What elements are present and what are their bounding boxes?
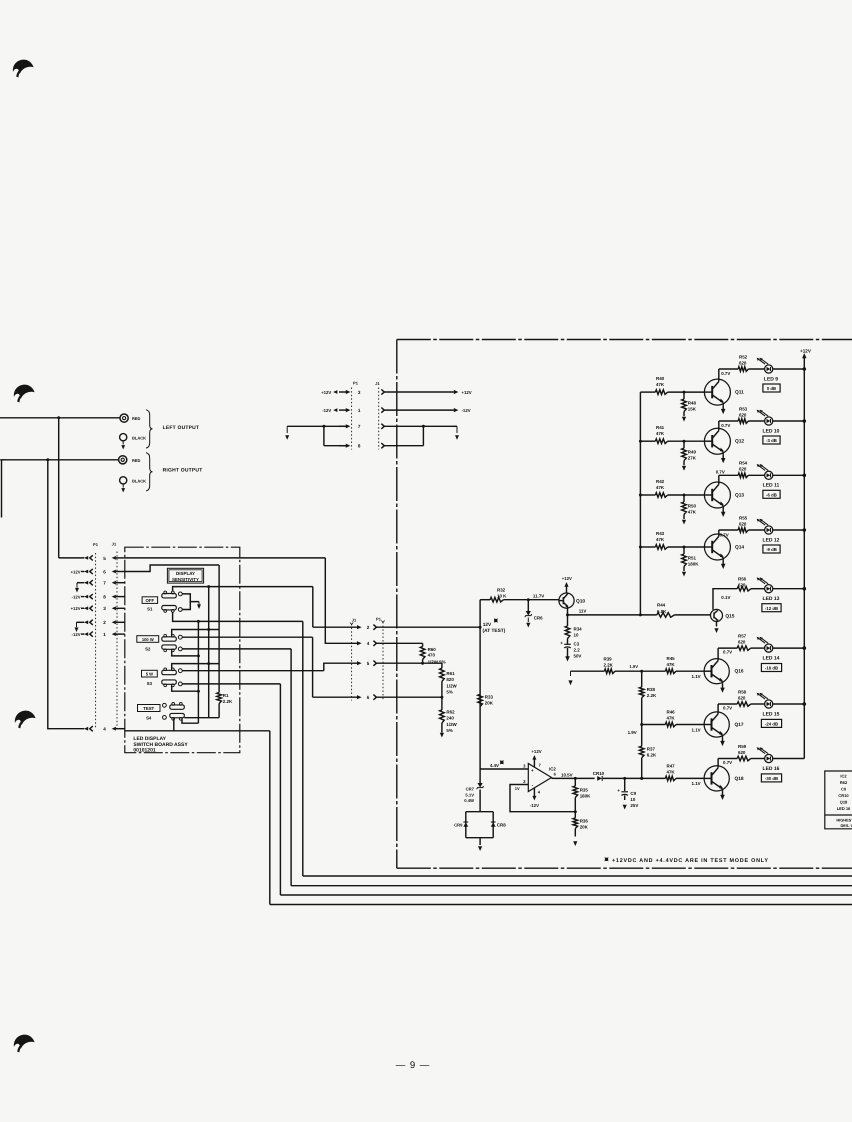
svg-text:470: 470 <box>428 653 436 658</box>
svg-text:620: 620 <box>739 521 747 526</box>
wire row5 from V1 <box>59 557 84 559</box>
resistor R53 <box>719 420 738 422</box>
highest ref designator table <box>825 771 852 829</box>
node A junction <box>57 416 60 419</box>
transistor Q13 <box>704 482 730 508</box>
svg-text:5.1V: 5.1V <box>465 792 474 797</box>
svg-text:CR6: CR6 <box>534 616 543 621</box>
svg-text:R36: R36 <box>580 819 589 824</box>
transistor Q11 <box>704 379 730 405</box>
top connector pin 3 <box>339 391 346 393</box>
svg-text:47K: 47K <box>667 716 676 721</box>
capacitor C3 <box>567 639 569 645</box>
node base Q12 <box>683 440 686 443</box>
bridge CR9 CR8 <box>466 811 493 813</box>
svg-text:620: 620 <box>738 750 746 755</box>
wire Q12 emitter ground <box>722 454 724 458</box>
svg-text:P1: P1 <box>93 542 99 547</box>
svg-text:(AT TEST): (AT TEST) <box>483 628 506 634</box>
resistor R56 <box>737 586 751 591</box>
wire Q10 emitter <box>567 606 569 615</box>
brace right output <box>146 453 153 491</box>
svg-text:4.4V: 4.4V <box>490 763 499 768</box>
svg-text:CR9: CR9 <box>454 823 463 828</box>
transistor Q15 <box>711 609 723 621</box>
svg-text:-12V: -12V <box>322 408 331 413</box>
svg-text:-: - <box>532 783 534 789</box>
svg-text:Q13: Q13 <box>735 493 744 499</box>
svg-text:-12V: -12V <box>462 408 471 413</box>
svg-text:1: 1 <box>358 408 361 413</box>
wire Q14 collector riser <box>718 530 720 534</box>
svg-text:R48: R48 <box>688 401 697 406</box>
resistor R57 <box>718 647 737 649</box>
svg-text:Q18: Q18 <box>735 776 744 782</box>
terminal BLACK right <box>120 477 127 484</box>
svg-text:J1: J1 <box>112 542 117 547</box>
svg-text:R43: R43 <box>656 531 665 536</box>
left connector pin 1 <box>90 632 93 637</box>
mid connector pin 6 <box>357 695 362 699</box>
svg-text:SENSITIVITY: SENSITIVITY <box>172 577 199 582</box>
transistor Q18 <box>704 766 729 791</box>
connector P1 left dashed line <box>95 553 97 729</box>
svg-text:LED 12: LED 12 <box>763 537 780 543</box>
svg-text:6.8K: 6.8K <box>657 609 667 614</box>
svg-text:15K: 15K <box>688 407 697 412</box>
svg-text:1V: 1V <box>515 786 520 791</box>
resistor R43 <box>640 546 655 548</box>
wire Q12 collector riser <box>718 421 720 428</box>
svg-text:5%: 5% <box>446 728 452 733</box>
svg-text:-24 dB: -24 dB <box>765 722 778 727</box>
svg-text:47K: 47K <box>667 662 676 667</box>
svg-text:R42: R42 <box>656 479 665 484</box>
ground pin7 <box>77 582 84 584</box>
svg-text:20K: 20K <box>580 825 589 830</box>
svg-text:RED: RED <box>132 458 141 463</box>
wire Q16 emitter ground <box>722 684 724 688</box>
registration mark 4 <box>14 1035 35 1049</box>
svg-text:C9: C9 <box>841 786 847 791</box>
resistor R50 <box>683 495 685 502</box>
svg-text:0 dB: 0 dB <box>767 386 776 391</box>
svg-text:+12V: +12V <box>71 569 81 574</box>
wire B drop to pin2 <box>312 587 314 628</box>
svg-text:1: 1 <box>103 632 106 637</box>
LED 13 <box>765 585 773 593</box>
connector J1 left dashed line <box>116 552 118 730</box>
node S2a junction <box>207 628 210 631</box>
svg-text:2: 2 <box>367 625 370 630</box>
svg-text:P1: P1 <box>353 381 359 386</box>
mid connector pin 5 <box>357 661 362 665</box>
svg-text:CR10: CR10 <box>838 793 849 798</box>
left connector pin 5 <box>90 555 93 560</box>
svg-text:3: 3 <box>358 390 361 395</box>
wire right-output <box>6 459 119 461</box>
svg-text:2.2K: 2.2K <box>223 699 233 704</box>
LED LED 9 <box>765 365 773 373</box>
svg-text:8: 8 <box>103 595 106 600</box>
svg-text:+12V: +12V <box>462 390 472 395</box>
IC2 pin 7 +12V <box>533 759 535 768</box>
LED LED 15 <box>765 700 773 708</box>
svg-text:R62: R62 <box>840 780 848 785</box>
registration mark 2 <box>14 385 35 399</box>
resistor R55 <box>719 529 738 531</box>
svg-text:5: 5 <box>367 661 370 666</box>
wire S1 bottom pin to row C <box>173 612 303 622</box>
resistor R41 <box>640 440 655 442</box>
svg-text:1.9V: 1.9V <box>628 730 637 735</box>
ground arm R39 <box>570 671 572 676</box>
wire Q15 emitter ground <box>716 621 718 626</box>
resistor R58 <box>718 703 737 705</box>
resistor R47 <box>642 777 666 779</box>
svg-text:620: 620 <box>738 640 746 645</box>
wire S4 right pins bus <box>184 717 219 719</box>
node B junction <box>46 458 49 461</box>
wire IC2 output <box>552 777 576 779</box>
svg-text:-3 dB: -3 dB <box>766 438 777 443</box>
resistor R60 <box>422 643 424 646</box>
svg-text:10 K: 10 K <box>497 593 507 598</box>
resistor R36 <box>574 812 576 818</box>
wire pin8 left loop <box>324 445 346 447</box>
svg-text:620: 620 <box>738 582 746 587</box>
wire vertical Vc <box>197 621 199 723</box>
wire row4 from V2 <box>48 728 84 730</box>
wire A row5 to pin4 <box>125 557 325 559</box>
wire pin6 to R62 <box>397 696 442 698</box>
svg-text:LED 16: LED 16 <box>763 766 780 772</box>
switch board separator <box>125 730 240 732</box>
resistor R1 <box>218 565 220 693</box>
svg-text:R60: R60 <box>428 647 437 652</box>
svg-text:Q10: Q10 <box>576 599 585 605</box>
wire pin3 input <box>480 768 528 770</box>
node S2c junction <box>197 654 200 657</box>
svg-text:8: 8 <box>358 444 361 449</box>
LED LED 11 <box>765 471 773 479</box>
connector P1 mid dashed line <box>382 622 384 701</box>
resistor R46 <box>642 724 666 726</box>
resistor R32 <box>480 599 490 601</box>
left connector pin 7 <box>90 580 93 585</box>
svg-text:3: 3 <box>103 606 106 611</box>
node base Q11 <box>683 391 686 394</box>
svg-text:10.5V: 10.5V <box>561 773 573 778</box>
svg-text:-12 dB: -12 dB <box>765 606 778 611</box>
resistor R42 <box>640 494 655 496</box>
svg-text:RIGHT OUTPUT: RIGHT OUTPUT <box>163 468 203 474</box>
wire C long drop <box>302 621 304 876</box>
svg-text:R44: R44 <box>657 603 666 608</box>
svg-text:R39: R39 <box>604 657 613 662</box>
terminal RED left <box>120 414 128 422</box>
svg-text:240: 240 <box>446 716 454 721</box>
top connector pin 7 <box>339 425 346 427</box>
node base Q14 <box>683 546 686 549</box>
svg-text:1/2W: 1/2W <box>446 722 457 727</box>
svg-text:S3: S3 <box>147 681 153 686</box>
resistor R49 <box>683 441 685 448</box>
svg-text:1.9V: 1.9V <box>629 664 638 669</box>
switch S1 OFF <box>162 594 177 598</box>
svg-text:BLACK: BLACK <box>132 479 146 484</box>
wire S4 lower-left pin to row H <box>173 719 175 731</box>
resistor R33 <box>478 694 483 706</box>
svg-text:C9: C9 <box>630 791 636 796</box>
ground pin2 <box>77 621 85 623</box>
svg-text:+12V: +12V <box>800 349 812 354</box>
wire F S2 bottom contact <box>182 648 291 650</box>
svg-text:4: 4 <box>367 641 370 646</box>
svg-text:620: 620 <box>739 412 747 417</box>
wire Q17 collector riser <box>717 704 719 712</box>
svg-text:4: 4 <box>103 727 106 732</box>
wire pin4 to R60 <box>397 642 423 644</box>
svg-text:47K: 47K <box>688 510 697 515</box>
resistor R48 <box>683 392 685 399</box>
svg-text:+: + <box>617 788 620 793</box>
main board boundary <box>397 339 852 341</box>
wire S1 top pin to row B <box>173 587 313 592</box>
svg-text:-18 dB: -18 dB <box>765 666 778 671</box>
wire pin8 right loop <box>384 445 423 447</box>
svg-text:-12V: -12V <box>530 803 539 808</box>
wire C9 to divider <box>625 777 642 779</box>
wire pin7 left with ground <box>287 425 346 427</box>
svg-text:BLACK: BLACK <box>132 435 146 440</box>
svg-text:LED 16: LED 16 <box>837 806 851 811</box>
svg-text:25V: 25V <box>630 803 638 808</box>
svg-text:R56: R56 <box>738 576 747 581</box>
svg-text:+12VDC AND +4.4VDC ARE IN TEST: +12VDC AND +4.4VDC ARE IN TEST MODE ONLY <box>612 858 769 864</box>
wire Q16 collector riser <box>717 648 719 659</box>
wire Q18 emitter ground <box>722 791 724 795</box>
left connector pin 8 <box>90 594 93 599</box>
svg-text:27K: 27K <box>688 456 697 461</box>
svg-text:47K: 47K <box>656 485 665 490</box>
svg-text:7: 7 <box>358 424 361 429</box>
resistor R45 <box>642 670 666 672</box>
svg-text:-12V: -12V <box>72 595 81 600</box>
wire Q13 emitter ground <box>722 508 724 512</box>
transistor Q10 <box>559 593 574 608</box>
brace left output <box>146 410 153 448</box>
svg-text:6: 6 <box>103 569 106 574</box>
wire main sense vertical <box>479 600 481 769</box>
svg-text:R1: R1 <box>223 693 229 698</box>
svg-text:47K: 47K <box>656 431 665 436</box>
svg-text:R45: R45 <box>667 656 676 661</box>
node S1B junction <box>207 585 210 588</box>
wire V2 drop <box>47 460 49 730</box>
svg-text:R52: R52 <box>739 354 748 359</box>
diode CR8 <box>491 822 496 826</box>
bottom feed wires to page edge <box>303 875 852 877</box>
resistor R37 <box>641 725 643 747</box>
svg-text:J1: J1 <box>352 617 357 622</box>
svg-text:2.2K: 2.2K <box>647 693 657 698</box>
svg-text:R33: R33 <box>485 695 494 700</box>
svg-text:180K: 180K <box>580 794 591 799</box>
left connector pin 6 <box>90 569 93 574</box>
svg-text:S4: S4 <box>146 716 152 721</box>
top connector pin 8 <box>339 445 346 447</box>
resistor R35 <box>574 778 576 786</box>
wire pin5 to R61 <box>397 662 442 664</box>
left connector pin 4 <box>90 726 93 731</box>
wire page-edge stub <box>1 460 3 518</box>
svg-text:0.7V: 0.7V <box>721 423 730 428</box>
svg-text:47K: 47K <box>667 769 676 774</box>
svg-text:1.1V: 1.1V <box>692 781 701 786</box>
transistor Q14 <box>704 534 730 560</box>
wire S2 top pin elbow <box>172 630 219 636</box>
connector J1 top dashed line <box>378 388 380 450</box>
IC2 pin 4 -12V <box>533 788 535 797</box>
switch board boundary <box>125 547 240 753</box>
transistor Q12 <box>704 428 730 454</box>
svg-text:47K: 47K <box>656 537 665 542</box>
wire 11V row <box>568 614 641 616</box>
svg-text:Q16: Q16 <box>735 669 744 675</box>
svg-text:-30 dB: -30 dB <box>765 776 778 781</box>
LED LED 14 <box>765 644 773 652</box>
svg-text:2.2: 2.2 <box>574 648 581 653</box>
mid connector pin 2 <box>357 625 362 629</box>
wire Q11 collector riser <box>718 369 720 379</box>
switch S3 5W <box>162 670 177 674</box>
wire pin2 to test node <box>397 626 480 628</box>
mid connector pin 4 <box>357 641 362 645</box>
resistor R54 <box>719 474 738 476</box>
svg-text:+12V: +12V <box>321 390 331 395</box>
svg-text:0.4W: 0.4W <box>464 798 474 803</box>
svg-text:5: 5 <box>103 556 106 561</box>
node base Q13 <box>683 494 686 497</box>
resistor R44 <box>657 613 675 618</box>
svg-text:0.7V: 0.7V <box>723 760 732 765</box>
svg-text:LED 13: LED 13 <box>763 596 780 602</box>
svg-text:+: + <box>560 641 563 646</box>
wire Q14 emitter ground <box>722 560 724 564</box>
svg-text:LED 10: LED 10 <box>763 428 780 434</box>
svg-text:47K: 47K <box>656 382 665 387</box>
svg-text:6: 6 <box>367 695 370 700</box>
svg-text:LEFT OUTPUT: LEFT OUTPUT <box>163 425 200 431</box>
svg-text:820: 820 <box>446 677 454 682</box>
svg-text:R47: R47 <box>667 763 676 768</box>
terminal RED right <box>119 456 127 464</box>
svg-text:100 W: 100 W <box>142 637 154 642</box>
svg-text:LED 14: LED 14 <box>763 655 780 661</box>
terminal BLACK left <box>120 434 127 441</box>
connector J1 mid dashed line <box>351 624 353 701</box>
wire Q17 emitter ground <box>722 737 724 741</box>
capacitor C9 <box>623 777 626 780</box>
svg-text:TEST: TEST <box>143 706 154 711</box>
svg-text:+: + <box>531 768 534 773</box>
svg-text:0.7V: 0.7V <box>721 371 730 376</box>
svg-text:P1: P1 <box>376 617 382 622</box>
svg-text:Q18: Q18 <box>840 799 848 804</box>
top connector pin 1 <box>339 409 346 411</box>
resistor R62 <box>441 697 443 710</box>
switch S2 100W <box>162 637 177 641</box>
op-amp IC2 <box>528 764 551 792</box>
svg-text:Q11: Q11 <box>735 390 744 396</box>
resistor R52 <box>719 368 738 370</box>
resistor R59 <box>718 758 737 760</box>
svg-text:LED 15: LED 15 <box>763 711 780 717</box>
svg-text:S2: S2 <box>145 646 151 651</box>
svg-text:11V: 11V <box>579 609 587 614</box>
svg-text:-6 dB: -6 dB <box>766 493 777 498</box>
wire S4 lower-right pin elbow <box>182 719 198 724</box>
wire ladder bus <box>639 392 641 615</box>
svg-text:180K: 180K <box>688 562 699 567</box>
svg-text:2.2K: 2.2K <box>604 663 614 668</box>
svg-text:10: 10 <box>574 633 579 638</box>
svg-text:R38: R38 <box>647 687 656 692</box>
svg-text:1.1V: 1.1V <box>692 674 701 679</box>
svg-text:5%: 5% <box>446 689 452 694</box>
svg-text:J1: J1 <box>375 381 380 386</box>
svg-text:10: 10 <box>630 797 635 802</box>
svg-text:CR7: CR7 <box>466 787 475 792</box>
svg-text:R57: R57 <box>738 634 747 639</box>
svg-text:CR10: CR10 <box>593 771 605 776</box>
svg-text:12V: 12V <box>483 622 492 628</box>
registration mark 3 <box>15 711 36 725</box>
svg-text:11.7V: 11.7V <box>533 593 544 598</box>
wire Q11 emitter ground <box>722 405 724 409</box>
bridge ground <box>479 838 481 845</box>
wire G S3 bottom contact <box>182 683 280 685</box>
svg-text:HIGHEST: HIGHEST <box>836 817 852 822</box>
resistor R61 <box>441 663 443 668</box>
resistor R51 <box>683 547 685 554</box>
wire S3 top pin elbow <box>172 664 219 670</box>
svg-text:C3: C3 <box>574 642 580 647</box>
wire Q18 collector riser <box>717 759 719 766</box>
wire pin7 right with ground <box>384 425 452 427</box>
wire S1 contacts to ground <box>182 594 199 602</box>
svg-text:+12V: +12V <box>531 749 541 754</box>
registration mark 1 <box>13 60 34 74</box>
wire +12V feed to Vb <box>125 565 219 572</box>
svg-text:— 9 —: — 9 — <box>396 1060 431 1071</box>
svg-text:R50: R50 <box>688 504 697 509</box>
connector P1 top dashed line <box>351 388 353 450</box>
svg-text:620: 620 <box>738 695 746 700</box>
wire +12V bus <box>803 358 805 759</box>
svg-text:00101201: 00101201 <box>133 748 155 754</box>
svg-text:CR8: CR8 <box>497 823 506 828</box>
display sensitivity label <box>167 568 203 583</box>
svg-text:OFF: OFF <box>146 598 155 603</box>
svg-text:R55: R55 <box>739 515 748 520</box>
test mode note <box>605 858 608 861</box>
svg-text:R34: R34 <box>574 627 583 632</box>
svg-text:LED 11: LED 11 <box>763 483 780 489</box>
svg-text:LED 9: LED 9 <box>764 376 778 382</box>
svg-text:0.7V: 0.7V <box>723 650 732 655</box>
